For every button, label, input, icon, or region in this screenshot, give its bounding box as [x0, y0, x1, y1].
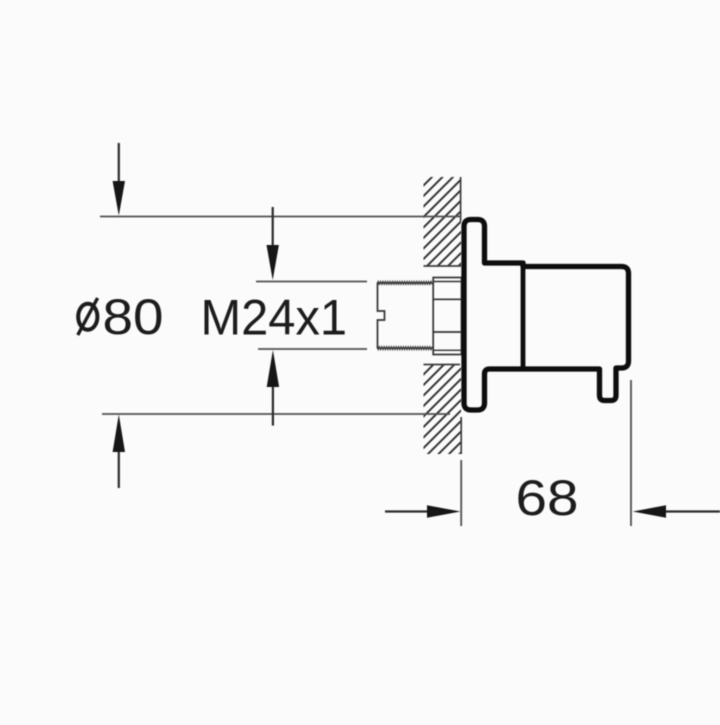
wall hatch top block [424, 177, 462, 266]
dimension line phi80 bottom extension [102, 413, 450, 415]
label phi80 diameter symbol [78, 298, 98, 335]
dimension line phi80 top extension [100, 216, 461, 218]
68 left extension line [460, 460, 462, 526]
thread crest bottom zigzag [377, 347, 432, 350]
arrow M24 bottom [267, 350, 279, 426]
arrow phi80 top [113, 143, 125, 216]
M24 bottom extension line [258, 348, 367, 350]
M24 top extension line [256, 281, 367, 283]
68 dimension arrow left [385, 505, 461, 517]
svg-text:68: 68 [516, 470, 579, 526]
arrow phi80 bottom [113, 415, 125, 489]
escutcheon plate and valve body outline [464, 220, 629, 411]
body/neck divider line [521, 261, 526, 369]
wall hatch bottom block [424, 365, 462, 455]
svg-text:M24x1: M24x1 [201, 290, 348, 346]
68 right extension line [630, 380, 632, 526]
68 dimension arrow right [633, 505, 720, 517]
arrow M24 top [267, 207, 279, 280]
thread crest top zigzag [377, 282, 432, 285]
threaded pipe left edge with notch [378, 283, 385, 348]
hex nut body [433, 278, 461, 355]
svg-text:80: 80 [103, 289, 164, 345]
